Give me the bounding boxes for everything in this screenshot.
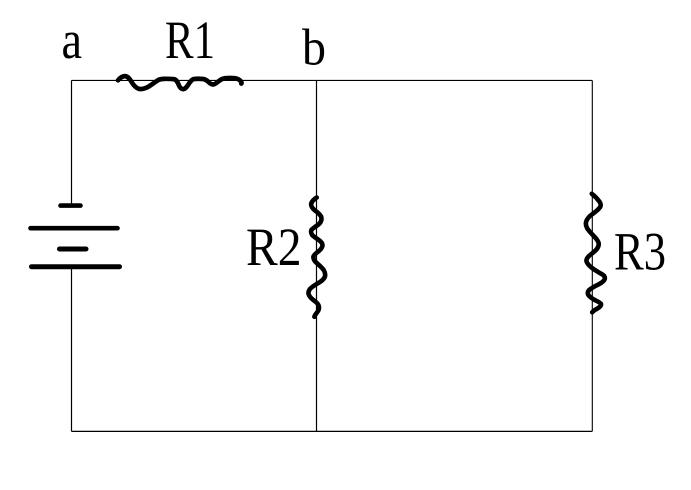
svg-text:a: a [62, 10, 83, 70]
wire: left upper segment (node a down to battery + terminal) [71, 80, 73, 204]
svg-text:R2: R2 [246, 217, 302, 277]
battery plate 3: short plate [60, 247, 87, 252]
battery (two-cell voltage source) [31, 206, 120, 267]
svg-text:R3: R3 [614, 222, 666, 282]
wire: top segment node a to node b [72, 79, 317, 81]
wire: middle branch segment (node b through R2 to bottom) [316, 80, 318, 431]
wire: top segment node b to top-right corner [317, 79, 593, 81]
wire: bottom segment [72, 430, 593, 432]
resistor R3 (hand-drawn vertical squiggle) [586, 194, 605, 312]
resistor R2 (hand-drawn vertical squiggle) [308, 198, 325, 317]
resistor R1 (hand-drawn squiggle) [118, 76, 242, 89]
svg-text:b: b [302, 20, 326, 77]
battery plate 4: long bottom plate [32, 264, 120, 269]
wire: left lower segment (battery - terminal down to bottom-left corner) [71, 267, 73, 431]
battery plate 2: long plate [31, 226, 118, 231]
svg-text:R1: R1 [165, 10, 215, 70]
wire: right segment (through R3) [591, 80, 593, 431]
battery plate 1: short top plate [61, 203, 81, 208]
